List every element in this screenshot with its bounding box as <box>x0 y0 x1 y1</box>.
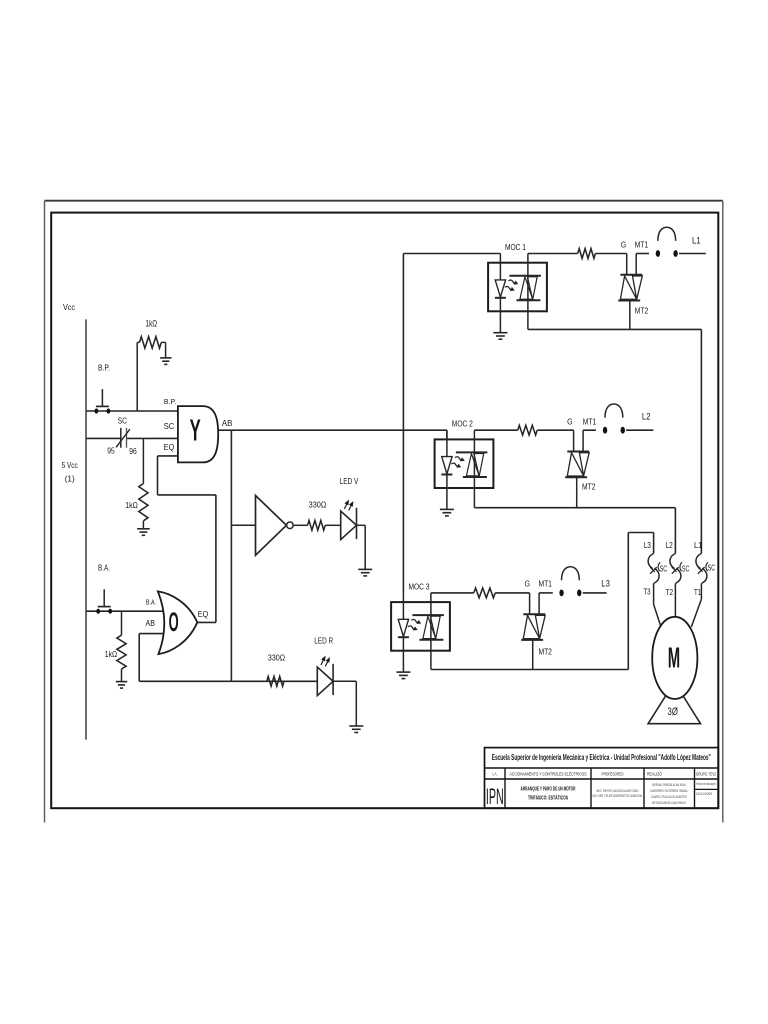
svg-text:MT1: MT1 <box>635 240 649 250</box>
svg-text:GRUPO: 7EV2: GRUPO: 7EV2 <box>696 772 716 777</box>
svg-text:T2: T2 <box>666 587 674 597</box>
svg-text:T1: T1 <box>694 587 701 597</box>
svg-text:95: 95 <box>107 447 115 456</box>
svg-text:ING. REYES VALENCIA ANTONIO: ING. REYES VALENCIA ANTONIO <box>597 789 639 793</box>
svg-text:Fecha de realización: Fecha de realización <box>696 782 716 786</box>
svg-text:1kΩ: 1kΩ <box>105 649 117 659</box>
svg-text:MT2: MT2 <box>538 646 552 656</box>
svg-text:B.A.: B.A. <box>98 564 110 573</box>
svg-text:SC: SC <box>682 564 690 573</box>
svg-text:SC: SC <box>164 421 175 431</box>
svg-text:SC: SC <box>118 415 127 425</box>
svg-text:Vcc: Vcc <box>63 302 76 312</box>
svg-text:MT1: MT1 <box>583 416 597 426</box>
svg-text:AB: AB <box>222 418 233 428</box>
svg-text:O: O <box>169 607 179 637</box>
svg-text:MOC 2: MOC 2 <box>452 419 473 429</box>
svg-text:(1): (1) <box>65 473 75 483</box>
svg-text:B.A.: B.A. <box>146 597 156 606</box>
svg-text:MT2: MT2 <box>582 481 596 491</box>
svg-text:SC: SC <box>708 563 716 572</box>
svg-text:G: G <box>567 416 573 426</box>
svg-text:MOC 3: MOC 3 <box>409 581 430 591</box>
svg-text:SC: SC <box>660 564 668 573</box>
svg-text:1kΩ: 1kΩ <box>125 500 138 510</box>
svg-text:LED R: LED R <box>314 635 333 645</box>
svg-text:TRIFÁSICO: ESTÁTICOS: TRIFÁSICO: ESTÁTICOS <box>528 794 568 801</box>
svg-text:3Ø: 3Ø <box>668 706 679 718</box>
svg-text:B.P.: B.P. <box>164 397 176 406</box>
svg-text:B.P.: B.P. <box>98 364 110 373</box>
svg-text:ING. HER. FELIPE BARRIENTOS SA: ING. HER. FELIPE BARRIENTOS SANDOVAL <box>593 794 643 798</box>
svg-text:MT2: MT2 <box>635 306 649 316</box>
svg-text:330Ω: 330Ω <box>309 500 327 510</box>
svg-text:AB: AB <box>146 618 156 628</box>
svg-text:L1: L1 <box>694 540 702 550</box>
svg-text:L1: L1 <box>692 236 701 247</box>
svg-text:Escuela Superior de Ingeniería: Escuela Superior de Ingeniería Mecánica … <box>492 753 711 762</box>
svg-text:24/11/2009: 24/11/2009 <box>696 792 712 796</box>
svg-text:ARTEAGA MATA JUAN PABLO: ARTEAGA MATA JUAN PABLO <box>652 801 686 805</box>
svg-text:T3: T3 <box>643 587 650 597</box>
svg-text:330Ω: 330Ω <box>268 653 285 663</box>
svg-text:EQ: EQ <box>164 442 175 452</box>
svg-text:G: G <box>524 579 530 589</box>
svg-text:96: 96 <box>129 447 137 456</box>
svg-text:REALIZÓ: REALIZÓ <box>647 771 662 777</box>
svg-text:ARRANQUE Y PARO DE UN MOTOR: ARRANQUE Y PARO DE UN MOTOR <box>521 786 576 792</box>
svg-text:M: M <box>668 642 680 674</box>
svg-text:ACCIONAMIENTO Y CONTROLES ELÉC: ACCIONAMIENTO Y CONTROLES ELÉCTRICOS <box>510 771 587 777</box>
svg-text:MOC 1: MOC 1 <box>505 242 526 252</box>
svg-text:1kΩ: 1kΩ <box>146 319 158 329</box>
svg-text:EQ: EQ <box>198 609 209 619</box>
svg-text:5 Vcc: 5 Vcc <box>62 460 79 470</box>
svg-text:L2: L2 <box>666 540 673 550</box>
svg-text:PROFESORES: PROFESORES <box>602 772 624 777</box>
svg-text:L3: L3 <box>601 578 610 589</box>
svg-text:G: G <box>621 240 627 250</box>
svg-text:L3: L3 <box>644 540 651 550</box>
svg-text:MT1: MT1 <box>538 579 552 589</box>
svg-text:I.A.: I.A. <box>493 771 498 776</box>
svg-text:L2: L2 <box>642 411 651 422</box>
svg-text:GUERRERO GUTIÉRREZ ISMAEL: GUERRERO GUTIÉRREZ ISMAEL <box>650 788 688 793</box>
svg-text:BERNAL PINEDA ALAN IVÁN: BERNAL PINEDA ALAN IVÁN <box>653 783 686 787</box>
svg-text:IPN: IPN <box>486 784 504 809</box>
svg-text:LED V: LED V <box>340 476 359 486</box>
svg-text:Y: Y <box>190 413 201 448</box>
svg-text:JUÁREZ CRUZ ALDO ALBERTO: JUÁREZ CRUZ ALDO ALBERTO <box>651 795 687 799</box>
